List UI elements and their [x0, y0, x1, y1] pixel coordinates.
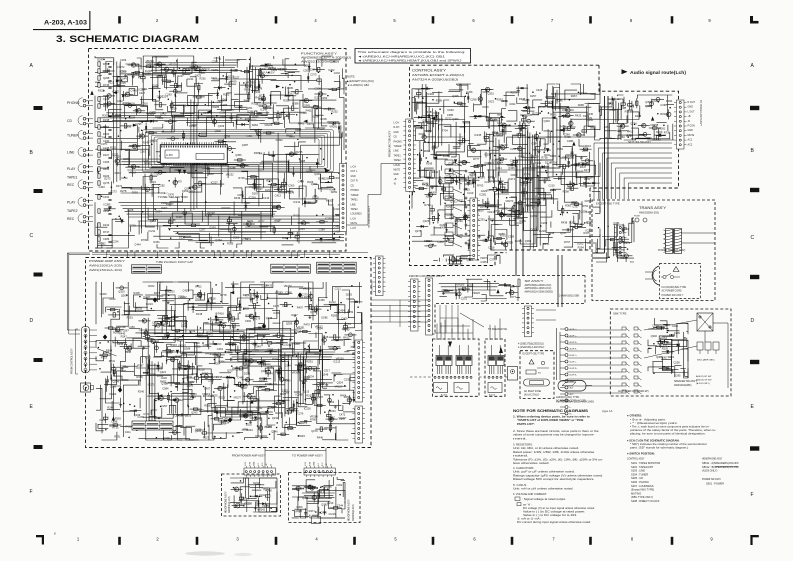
svg-text:Q315: Q315	[322, 335, 329, 339]
svg-text:Q385: Q385	[304, 104, 311, 108]
svg-text:FROM CONTROL ASS'Y: FROM CONTROL ASS'Y	[71, 348, 74, 374]
svg-text:C295: C295	[287, 86, 294, 90]
svg-text:Q349: Q349	[487, 188, 494, 192]
svg-text:Q340: Q340	[314, 172, 321, 176]
svg-text:AWZ449(A-103): AWZ449(A-103)	[228, 496, 231, 513]
svg-text:D219: D219	[312, 196, 319, 200]
svg-text:VR242: VR242	[257, 507, 265, 511]
svg-text:Q256: Q256	[582, 148, 589, 152]
svg-text:C394: C394	[284, 364, 291, 368]
svg-text:Q387: Q387	[242, 143, 249, 147]
svg-text:IC229: IC229	[258, 97, 265, 101]
svg-text:R294: R294	[304, 201, 311, 205]
svg-text:R795: R795	[141, 238, 148, 242]
svg-text:LINE: LINE	[351, 204, 357, 206]
svg-text:C344: C344	[511, 285, 518, 289]
svg-text:R278: R278	[256, 87, 263, 91]
svg-text:Q360: Q360	[321, 503, 328, 507]
svg-text:Q313: Q313	[303, 390, 310, 394]
svg-text:C379: C379	[489, 258, 496, 262]
svg-text:VR247: VR247	[178, 343, 186, 347]
svg-text:R456: R456	[103, 167, 110, 171]
svg-text:R424: R424	[422, 182, 429, 186]
svg-text:R395: R395	[550, 113, 557, 117]
svg-text:C346: C346	[301, 352, 308, 356]
svg-text:Q268: Q268	[103, 76, 110, 80]
svg-text:R252: R252	[332, 110, 339, 114]
svg-text:Q383: Q383	[505, 213, 512, 217]
svg-text:C204: C204	[309, 68, 316, 72]
svg-text:C344: C344	[337, 503, 344, 507]
svg-text:R778: R778	[220, 293, 227, 297]
svg-text:A-B3: A-B3	[166, 153, 173, 157]
svg-text:F: F	[30, 489, 33, 495]
svg-text:C279: C279	[226, 348, 233, 352]
svg-text:VR226: VR226	[472, 291, 480, 295]
svg-text:VR219: VR219	[202, 392, 210, 396]
svg-text:C207: C207	[199, 227, 206, 231]
svg-text:B-SP R-: B-SP R-	[570, 375, 578, 377]
svg-text:C219: C219	[467, 191, 474, 195]
svg-text:VR286: VR286	[211, 105, 219, 109]
svg-text:VR291: VR291	[329, 124, 337, 128]
svg-text:C472: C472	[339, 413, 346, 417]
svg-text:C403: C403	[150, 110, 157, 114]
svg-text:C449: C449	[265, 62, 272, 66]
svg-text:D257: D257	[530, 94, 537, 98]
svg-text:R264: R264	[329, 409, 336, 413]
svg-text:OUT L: OUT L	[351, 171, 358, 173]
svg-text:VR293: VR293	[455, 219, 463, 223]
svg-text:TRANS ASS'Y: TRANS ASS'Y	[639, 206, 667, 210]
svg-text:R780: R780	[310, 418, 317, 422]
svg-text:placing, be sure to use parts: placing, be sure to use parts of identic…	[630, 431, 706, 435]
svg-text:C253: C253	[510, 147, 517, 151]
svg-text:CD: CD	[67, 119, 72, 123]
svg-text:① mA or ② mA :: ① mA or ② mA :	[517, 517, 542, 521]
svg-text:R719: R719	[130, 224, 137, 228]
svg-text:C413: C413	[333, 207, 340, 211]
svg-text:R798: R798	[424, 203, 431, 207]
svg-text:R203: R203	[103, 104, 110, 108]
svg-text:D272: D272	[445, 117, 452, 121]
svg-text:R796: R796	[250, 413, 257, 417]
svg-text:C401: C401	[280, 184, 287, 188]
svg-text:C: C	[30, 233, 34, 239]
svg-text:Unit: µuF or µF unless otherwi: Unit: µuF or µF unless otherwise noted.	[513, 470, 575, 474]
svg-text:D267: D267	[483, 90, 490, 94]
svg-text:POWER AMP ASS'Y: POWER AMP ASS'Y	[89, 259, 125, 263]
svg-text:C445: C445	[587, 112, 594, 116]
svg-text:D285: D285	[321, 316, 328, 320]
svg-text:EXCEPT GBJ TYPE: EXCEPT GBJ TYPE	[523, 353, 545, 356]
svg-text:C297: C297	[189, 380, 196, 384]
svg-text:AWR1234(GBK): AWR1234(GBK)	[674, 384, 692, 387]
svg-text:R401: R401	[668, 355, 675, 359]
svg-text:R751: R751	[582, 204, 589, 208]
svg-text:C337: C337	[572, 205, 579, 209]
svg-text:R384: R384	[210, 352, 217, 356]
svg-text:SRJT OFF SW ASS'Y: SRJT OFF SW ASS'Y	[628, 141, 652, 144]
svg-text:IC212: IC212	[293, 200, 300, 204]
svg-text:C250: C250	[674, 361, 681, 365]
svg-text:GND: GND	[688, 106, 694, 109]
svg-text:R341: R341	[226, 375, 233, 379]
svg-text:A-103: A-103	[489, 394, 496, 397]
svg-text:C211: C211	[142, 87, 149, 91]
svg-text:D262: D262	[202, 372, 209, 376]
svg-text:less otherwise noted.: less otherwise noted.	[513, 461, 550, 465]
svg-text:S801 (AWR GBK): S801 (AWR GBK)	[697, 359, 715, 362]
svg-text:C305: C305	[480, 260, 487, 264]
svg-text:R268: R268	[424, 149, 431, 153]
svg-text:R424: R424	[560, 125, 567, 129]
svg-text:R707: R707	[564, 240, 571, 244]
svg-text:IC298: IC298	[312, 115, 319, 119]
svg-text:R441: R441	[298, 121, 305, 125]
svg-text:C458: C458	[125, 124, 132, 128]
svg-text:C319: C319	[488, 245, 495, 249]
svg-text:C363: C363	[504, 284, 511, 288]
svg-text:Q225: Q225	[423, 219, 430, 223]
svg-text:R278: R278	[120, 189, 127, 193]
svg-text:IC226: IC226	[304, 406, 311, 410]
svg-text:Q202: Q202	[103, 69, 110, 73]
svg-text:D237: D237	[265, 188, 272, 192]
svg-text:C385: C385	[447, 113, 454, 117]
svg-text:IC216: IC216	[329, 512, 336, 516]
svg-text:LINE: LINE	[67, 151, 75, 155]
svg-text:D267: D267	[252, 192, 259, 196]
svg-text:Rated voltage 50V except for e: Rated voltage 50V except for electrolyti…	[513, 477, 595, 481]
svg-text:C288: C288	[567, 139, 574, 143]
svg-text:Q352: Q352	[161, 381, 168, 385]
svg-text:MUTE: MUTE	[394, 170, 401, 172]
svg-text:Value in ( ) is DC voltage: Value in ( ) is DC voltage for A-103.	[523, 513, 577, 517]
svg-text:R422: R422	[125, 424, 132, 428]
svg-text:ment.: ment.	[513, 436, 527, 440]
svg-text:C466: C466	[244, 201, 251, 205]
svg-text:IC206: IC206	[440, 223, 447, 227]
svg-text:Q209: Q209	[209, 225, 216, 229]
svg-text:R299: R299	[426, 161, 433, 165]
svg-text:(KU,KC ONLY): (KU,KC ONLY)	[524, 395, 540, 397]
svg-text:R-IN: R-IN	[309, 461, 311, 466]
svg-text:C454: C454	[497, 161, 504, 165]
svg-text:R763: R763	[477, 184, 484, 188]
svg-text:R223: R223	[219, 396, 226, 400]
svg-text:C462: C462	[456, 142, 463, 146]
svg-text:C265: C265	[674, 331, 681, 335]
svg-text:C452: C452	[242, 413, 249, 417]
svg-text:AWZ5211(-20//GBJ): AWZ5211(-20//GBJ)	[301, 60, 339, 64]
svg-text:R338: R338	[119, 325, 126, 329]
svg-text:IC233: IC233	[168, 290, 175, 294]
svg-text:Q307: Q307	[302, 496, 309, 500]
svg-text:MUTE: MUTE	[688, 134, 695, 137]
svg-text:C400: C400	[672, 324, 679, 328]
svg-text:R363: R363	[456, 259, 463, 263]
svg-text:Q399: Q399	[224, 134, 231, 138]
svg-text:R737: R737	[258, 219, 265, 223]
svg-text:Q275: Q275	[415, 229, 422, 233]
svg-text:D211: D211	[188, 77, 195, 81]
svg-text:VR283: VR283	[275, 291, 283, 295]
svg-text:C234: C234	[298, 227, 305, 231]
svg-text:C202: C202	[334, 71, 341, 75]
svg-text:S202 : TAPE1/CRT: S202 : TAPE1/CRT	[631, 465, 654, 469]
svg-text:R334: R334	[660, 112, 667, 116]
svg-text:TO SPEAKER SW: TO SPEAKER SW	[488, 328, 508, 331]
svg-text:VR277: VR277	[233, 395, 241, 399]
svg-text:FROM POWER AMP ASS'Y: FROM POWER AMP ASS'Y	[232, 454, 266, 457]
svg-text:IC212: IC212	[329, 300, 336, 304]
svg-text:C309: C309	[120, 58, 127, 62]
svg-text:R355: R355	[194, 345, 201, 349]
svg-text:Q274: Q274	[630, 121, 637, 125]
svg-text:C366: C366	[312, 486, 319, 490]
svg-text:R294: R294	[578, 246, 585, 250]
svg-text:C329: C329	[586, 116, 593, 120]
svg-text:C260: C260	[303, 69, 310, 73]
svg-text:R218: R218	[198, 368, 205, 372]
svg-text:R716: R716	[551, 160, 558, 164]
svg-text:C381: C381	[613, 221, 620, 225]
svg-text:S205 : CD: S205 : CD	[631, 476, 643, 480]
svg-text:LOUD: LOUD	[394, 165, 401, 167]
svg-text:C460: C460	[571, 201, 578, 205]
svg-text:R367: R367	[208, 172, 215, 176]
svg-text:D207: D207	[256, 187, 263, 191]
svg-text:R372: R372	[116, 184, 123, 188]
svg-text:R383: R383	[625, 109, 632, 113]
svg-text:PHONO: PHONO	[351, 190, 360, 192]
svg-text:D249: D249	[448, 108, 455, 112]
svg-text:TAPE1: TAPE1	[67, 176, 78, 180]
svg-text:C429: C429	[183, 288, 190, 292]
svg-text:B-SP R+: B-SP R+	[570, 368, 579, 370]
svg-text:C413: C413	[275, 194, 282, 198]
svg-text:IC295: IC295	[325, 216, 332, 220]
svg-text:IC231: IC231	[620, 256, 627, 260]
svg-text:Rated power: 1/4W, 1/6W, 1/8F,: Rated power: 1/4W, 1/6W, 1/8F, 1/10A unl…	[513, 450, 595, 454]
svg-text:IC294: IC294	[449, 173, 456, 177]
svg-text:D216: D216	[545, 161, 552, 165]
svg-text:D: D	[751, 318, 755, 324]
svg-text:S201 : TAPE2 MONITOR: S201 : TAPE2 MONITOR	[631, 461, 660, 465]
svg-text:IC228: IC228	[523, 98, 530, 102]
svg-text:S206 : PHONO: S206 : PHONO	[631, 480, 649, 484]
svg-text:SP ASS'Y: SP ASS'Y	[525, 279, 544, 283]
svg-text:R467: R467	[571, 94, 578, 98]
svg-text:R720: R720	[206, 330, 213, 334]
svg-text:+B: +B	[394, 179, 397, 181]
svg-text:C253: C253	[284, 94, 291, 98]
svg-text:VR276: VR276	[480, 256, 488, 260]
svg-text:Q294: Q294	[215, 238, 222, 242]
svg-text:D247: D247	[97, 57, 104, 61]
svg-text:D218: D218	[196, 312, 203, 316]
svg-text:(KBU TYPE ONLY): (KBU TYPE ONLY)	[631, 495, 653, 499]
svg-text:VR217: VR217	[334, 385, 342, 389]
svg-text:IC271: IC271	[508, 177, 515, 181]
svg-text:Q327: Q327	[241, 386, 248, 390]
svg-text:R458: R458	[344, 395, 351, 399]
svg-text:AWN(15011A-103): AWN(15011A-103)	[89, 268, 122, 272]
svg-text:● SWITCH POSITION:: ● SWITCH POSITION:	[627, 452, 655, 456]
svg-text:D286: D286	[123, 157, 130, 161]
svg-text:C383: C383	[110, 385, 117, 389]
svg-text:AWH1059(A-203) AWH1060: AWH1059(A-203) AWH1060	[556, 401, 595, 404]
svg-text:Q325: Q325	[452, 94, 459, 98]
svg-text:IC284: IC284	[427, 92, 434, 96]
svg-text:C432: C432	[521, 183, 528, 187]
svg-text:D228: D228	[635, 114, 642, 118]
svg-text:POWER TRANS(A-103V): POWER TRANS(A-103V)	[658, 249, 686, 252]
svg-text:R738: R738	[541, 156, 548, 160]
svg-text:R369: R369	[254, 151, 261, 155]
svg-text:POWER SW ASSY: POWER SW ASSY	[702, 477, 721, 481]
svg-text:R796: R796	[245, 314, 252, 318]
svg-text:R395: R395	[227, 242, 234, 246]
svg-text:D: D	[30, 318, 34, 324]
svg-text:Unit: kΩ, MΩ, or Ω unless othe: Unit: kΩ, MΩ, or Ω unless otherwise note…	[513, 446, 579, 450]
svg-text:C394: C394	[531, 141, 538, 145]
svg-text:Q232: Q232	[195, 429, 202, 433]
svg-text:AC POWER CORD(GBJ:2P): AC POWER CORD(GBJ:2P)	[618, 390, 649, 393]
svg-text:C212: C212	[335, 286, 342, 290]
svg-text:• * : (Measurement)on: • * : (Measurement)on point.	[630, 421, 678, 425]
svg-text:R715: R715	[101, 356, 108, 360]
svg-text:3. SCHEMATIC DIAGRAM: 3. SCHEMATIC DIAGRAM	[56, 34, 199, 45]
svg-text:C407: C407	[204, 387, 211, 391]
svg-text:6. VOLTAGE AND CURRENT:: 6. VOLTAGE AND CURRENT:	[513, 492, 547, 496]
svg-text:C426: C426	[161, 201, 168, 205]
svg-text:R323: R323	[167, 350, 174, 354]
svg-text:C325: C325	[424, 129, 431, 133]
svg-text:C242: C242	[175, 413, 182, 417]
svg-text:R349: R349	[255, 344, 262, 348]
svg-text:Q249: Q249	[256, 417, 263, 421]
svg-text:R736: R736	[103, 83, 110, 87]
svg-text:R439: R439	[342, 327, 349, 331]
svg-text:C313: C313	[259, 493, 266, 497]
svg-text:VR207: VR207	[326, 199, 334, 203]
svg-text:R287: R287	[496, 133, 503, 137]
svg-text:C321: C321	[617, 97, 624, 101]
svg-text:C262: C262	[319, 381, 326, 385]
svg-text:R389: R389	[436, 98, 443, 102]
svg-text:A-SP R+: A-SP R+	[570, 341, 579, 344]
svg-text:VR295: VR295	[303, 286, 311, 290]
svg-text:R748: R748	[175, 355, 182, 359]
svg-text:VR275: VR275	[295, 150, 303, 154]
svg-text:TAPE2: TAPE2	[67, 209, 78, 213]
svg-text:R728: R728	[238, 176, 245, 180]
svg-text:R308: R308	[329, 188, 336, 192]
svg-text:R279: R279	[511, 91, 518, 95]
svg-text:R323: R323	[605, 136, 612, 140]
svg-text:R344: R344	[264, 488, 271, 492]
svg-text:FUSE: FUSE	[634, 216, 640, 218]
svg-text:AN7324 A-203(KU)(GBJ): AN7324 A-203(KU)(GBJ)	[412, 77, 458, 81]
svg-text:C383: C383	[268, 365, 275, 369]
svg-text:Q275: Q275	[103, 181, 110, 185]
svg-text:R371: R371	[309, 509, 316, 513]
svg-text:D205: D205	[152, 83, 159, 87]
svg-text:R262: R262	[200, 76, 207, 80]
svg-text:CD: CD	[351, 185, 355, 187]
svg-text:R412: R412	[195, 284, 202, 288]
svg-text:C295: C295	[135, 122, 142, 126]
svg-text:C494: C494	[283, 378, 290, 382]
svg-text:R241: R241	[210, 301, 217, 305]
svg-text:C309: C309	[296, 505, 303, 509]
svg-text:C263: C263	[541, 221, 548, 225]
svg-text:B-SP L-: B-SP L-	[570, 362, 577, 364]
svg-text:4-(2SA1633) A-203 ONLY: 4-(2SA1633) A-203 ONLY	[518, 346, 545, 349]
svg-text:REC: REC	[67, 183, 75, 187]
svg-text:Q265: Q265	[501, 207, 508, 211]
svg-text:D234: D234	[308, 375, 315, 379]
svg-text:IC293: IC293	[484, 152, 491, 156]
svg-text:TUBE 2SA RELIC IN/OUT GAP: TUBE 2SA RELIC IN/OUT GAP	[156, 261, 193, 264]
svg-text:Q291: Q291	[150, 180, 157, 184]
svg-text:R355: R355	[137, 375, 144, 379]
svg-text:D295: D295	[674, 374, 681, 378]
svg-text:GND: GND	[351, 176, 356, 178]
svg-text:D284: D284	[252, 123, 259, 127]
svg-text:IC274: IC274	[416, 100, 423, 104]
svg-text:C423: C423	[488, 100, 495, 104]
svg-text:R787: R787	[426, 110, 433, 114]
svg-text:D284: D284	[155, 210, 162, 214]
svg-text:Q340: Q340	[215, 129, 222, 133]
svg-text:C278: C278	[288, 191, 295, 195]
svg-text:R266: R266	[244, 87, 251, 91]
svg-text:R772: R772	[259, 94, 266, 98]
svg-text:R313: R313	[298, 487, 305, 491]
svg-text:R209: R209	[102, 113, 109, 117]
svg-text:R393: R393	[122, 378, 129, 382]
svg-text:Q339: Q339	[218, 124, 225, 128]
svg-text:C434: C434	[109, 297, 116, 301]
svg-text:L-CH: L-CH	[351, 167, 357, 169]
svg-text:P.CON: P.CON	[688, 125, 696, 128]
svg-text:R261: R261	[659, 126, 666, 130]
svg-text:D260: D260	[233, 235, 240, 239]
svg-text:R255: R255	[499, 232, 506, 236]
svg-text:HEADPHONE ASSY: HEADPHONE ASSY	[702, 457, 722, 461]
svg-text:C399: C399	[508, 234, 515, 238]
svg-text:C400: C400	[341, 316, 348, 320]
svg-text:TO CONTROL: TO CONTROL	[372, 280, 374, 295]
svg-text:TAPE2: TAPE2	[351, 208, 359, 211]
svg-text:R203: R203	[171, 106, 178, 110]
svg-text:R227: R227	[154, 291, 161, 295]
svg-text:● OTHERS:: ● OTHERS:	[627, 414, 642, 418]
svg-text:AC POWER CORD: AC POWER CORD	[662, 290, 682, 293]
svg-text:R405: R405	[134, 291, 141, 295]
svg-text:S203 : LINE: S203 : LINE	[631, 469, 645, 473]
svg-text:Tolerance (F): ±1%, (G): ±2%,: Tolerance (F): ±1%, (G): ±2%, (K): 10%, …	[513, 457, 603, 461]
svg-text:S207 : LOUDNESS: S207 : LOUDNESS	[631, 484, 654, 488]
svg-text:D298: D298	[156, 365, 163, 369]
svg-text:D225: D225	[346, 293, 353, 297]
svg-text:VR272: VR272	[284, 284, 292, 288]
svg-text:3. RESISTORS:: 3. RESISTORS:	[513, 443, 533, 447]
svg-text:D247: D247	[177, 74, 184, 78]
